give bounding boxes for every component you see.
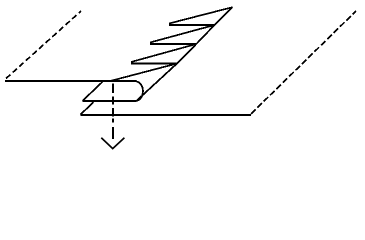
stitch 4 upper thread — [169, 7, 233, 23]
stitch 2 upper thread — [131, 44, 196, 62]
stitch 4 lower thread — [169, 24, 215, 26]
under layer left edge — [80, 102, 93, 114]
fabric back-right dashed edge — [251, 11, 356, 114]
stitch 3 lower thread — [150, 43, 196, 45]
arrowhead — [101, 138, 124, 149]
arrow shaft dashed — [112, 84, 114, 140]
hem fold bottom edge — [83, 100, 137, 102]
hem fold rounded end — [136, 82, 143, 101]
stitch 1 upper thread — [111, 64, 177, 81]
hem fold left edge — [83, 82, 103, 101]
stitch 3 upper thread — [150, 25, 215, 43]
folded fabric edge diagonal — [137, 7, 233, 101]
fabric back-left dashed edge — [6, 11, 81, 79]
stitch 2 lower thread — [131, 63, 177, 65]
under layer front edge — [80, 114, 251, 116]
fabric top front edge — [5, 80, 137, 82]
